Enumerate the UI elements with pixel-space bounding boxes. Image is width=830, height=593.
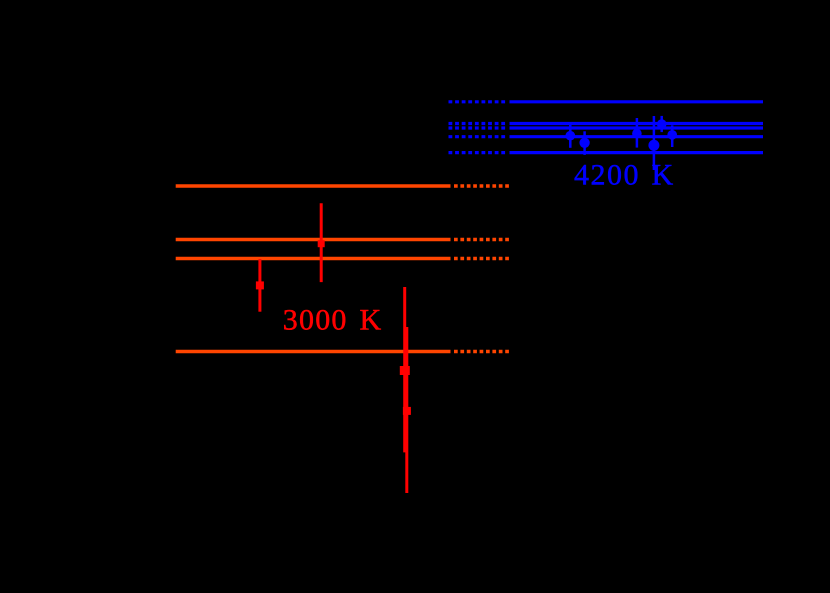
blue data point M1 error bar [569,125,572,148]
orange level line C (dotted right segment) [454,257,511,261]
red data point P2 marker [403,407,411,415]
blue data point M1 marker [566,131,576,141]
red data point B error bar [258,259,261,312]
orange level line A (solid) [176,184,451,188]
blue data point M4 marker [657,119,667,129]
blue data point M2 marker [579,138,589,148]
red data point A marker [318,240,325,247]
blue data point M3 error bar [636,118,639,148]
orange level line B (solid) [176,238,451,242]
red data point B marker [256,281,264,289]
red data point P1 marker [400,366,410,375]
blue level line 5 (solid) [510,151,764,154]
orange level line D (dotted right segment) [454,350,511,354]
blue level line 3 (solid) [510,126,764,129]
blue level line 2 (solid) [510,122,764,125]
blue level line 4 (solid) [510,135,764,138]
blue level line 5 (dotted left segment) [449,151,508,154]
blue level line 1 (dotted left segment) [449,100,508,103]
blue level line 2 (dotted left segment) [449,122,508,125]
blue data point M5 marker [667,130,677,140]
blue data point M2 error bar [583,131,586,155]
blue level line 1 (solid) [510,100,764,103]
blue level line 3 (dotted left segment) [449,126,508,129]
blue data point M3 marker [632,129,642,139]
orange level line C (solid) [176,257,451,261]
blue data point M6 marker [648,140,659,151]
orange level line A (dotted right segment) [454,184,511,188]
svg-text:K: K [360,303,382,336]
svg-text:3000: 3000 [283,303,348,336]
blue data point M6 error bar [653,116,656,170]
svg-text:K: K [652,158,674,191]
blue level line 4 (dotted left segment) [449,135,508,138]
orange level line D (solid) [176,350,451,354]
red data point A error bar [320,203,323,282]
blue data point M5 error bar [671,125,674,147]
red data point P1 error bar [403,287,406,452]
red data point P2 error bar [405,327,408,493]
blue data point M4 error bar [660,116,663,132]
orange level line B (dotted right segment) [454,238,511,242]
svg-text:4200: 4200 [574,158,640,191]
